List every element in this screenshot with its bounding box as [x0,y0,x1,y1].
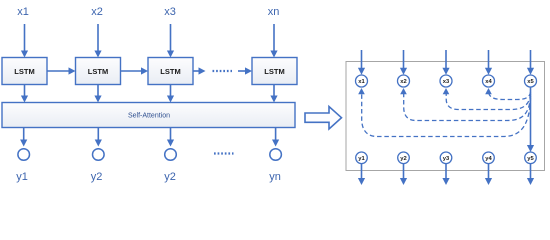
LSTM cell 3 [148,58,193,85]
right node x4 [483,75,495,87]
solid wire x5 to y5 [527,87,534,152]
svg-text:LSTM: LSTM [88,67,108,76]
svg-text:x4: x4 [485,79,492,85]
right node x5 [525,75,537,87]
wire arrow into right x3 [442,50,449,75]
wire arrow out of y2 [400,164,407,185]
wire arrow into right x5 [527,50,534,75]
wire arrow attention to yn [272,128,279,147]
wire arrow attention to y3 [167,128,174,147]
output node circle 2 [93,149,105,161]
svg-text:x2: x2 [91,6,103,18]
block arrow between diagrams [305,107,342,130]
svg-text:xn: xn [268,6,280,18]
wire arrow xn to LSTM4 [270,24,277,58]
wire arrow out of y5 [527,164,534,185]
svg-text:y4: y4 [485,156,492,162]
wire arrow into right x2 [400,50,407,75]
svg-text:y2: y2 [164,171,176,183]
wire arrow LSTM3 stub [193,67,206,74]
svg-text:LSTM: LSTM [14,67,34,76]
right node y2 [398,152,410,164]
right panel frame [346,62,545,171]
svg-text:x3: x3 [164,6,176,18]
svg-text:y2: y2 [91,171,103,183]
wire arrow into right x4 [485,50,492,75]
svg-text:LSTM: LSTM [264,67,284,76]
svg-text:x1: x1 [358,79,365,85]
wire arrow LSTM1 to LSTM2 [47,67,76,74]
svg-text:y1: y1 [16,171,28,183]
dashed attention x5 to x4 [489,92,531,100]
wire arrow attention to y1 [20,128,27,147]
dashed attention x5 to x1 [362,94,531,137]
wire arrow x1 to LSTM1 [21,24,28,58]
output node circle 1 [18,149,30,161]
svg-text:Self-Attention: Self-Attention [128,113,170,120]
svg-text:y2: y2 [400,156,406,162]
wire arrow LSTM2 to LSTM3 [121,67,149,74]
LSTM cell 1 [2,58,47,85]
svg-text:x1: x1 [17,6,29,18]
svg-text:x5: x5 [527,79,534,85]
wire arrow out of y1 [358,164,365,185]
ellipsis dots between output circles [214,152,234,154]
LSTM cell 2 [76,58,121,85]
wire arrow x3 to LSTM3 [167,24,174,58]
svg-text:y3: y3 [443,156,450,162]
svg-text:y1: y1 [358,156,365,162]
output node circle 3 [165,149,177,161]
right node y1 [356,152,368,164]
output node circle 4 [270,149,282,161]
right node x2 [398,75,410,87]
wire arrow into LSTM4 [238,67,252,74]
right node y3 [440,152,452,164]
wire arrow LSTM2 to attention [94,85,101,103]
svg-text:x3: x3 [443,79,450,85]
wire arrow x2 to LSTM2 [94,24,101,58]
svg-text:yn: yn [269,171,281,183]
self-attention block [2,103,295,128]
ellipsis dots between LSTM3 and LSTM4 [213,70,233,72]
wire arrow LSTM4 to attention [270,85,277,103]
svg-text:x2: x2 [400,79,406,85]
right node x1 [356,75,368,87]
svg-text:LSTM: LSTM [160,67,180,76]
wire arrow attention to y2 [95,128,102,147]
wire arrow into right x1 [358,50,365,75]
right node y4 [483,152,495,164]
wire arrow out of y4 [485,164,492,185]
LSTM cell 4 [252,58,297,85]
svg-text:y5: y5 [527,156,534,162]
dashed attention x5 to x2 [404,94,531,121]
wire arrow LSTM3 to attention [167,85,174,103]
right node x3 [440,75,452,87]
right node y5 [525,152,537,164]
wire arrow LSTM1 to attention [21,85,28,103]
dashed attention x5 to x3 [446,94,530,110]
wire arrow out of y3 [442,164,449,185]
